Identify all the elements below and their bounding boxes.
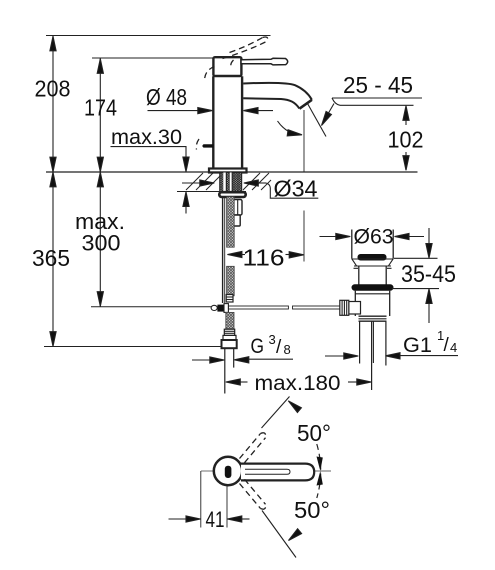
svg-text:Ø63: Ø63: [354, 225, 394, 249]
dim 25-45 underline: [332, 97, 422, 99]
dashed lever (raised position): [196, 37, 267, 149]
dim Ø34 arrows: [182, 182, 202, 184]
svg-text:116: 116: [243, 245, 285, 271]
tee junction: [211, 305, 217, 310]
deck hatching: [186, 173, 271, 190]
dim 102: [405, 108, 407, 125]
aerator swivel arc: [278, 121, 298, 135]
spout: [243, 83, 312, 100]
counter underside line: [177, 191, 246, 193]
mounting hardware stack: [233, 200, 242, 216]
plug cap: [358, 254, 387, 261]
svg-text:208: 208: [35, 76, 71, 102]
svg-text:max.180: max.180: [255, 372, 341, 395]
max.30 lower arrow: [185, 203, 187, 214]
rod to drain (right): [228, 306, 288, 309]
dim G3/8: [192, 359, 212, 361]
svg-text:G: G: [251, 335, 265, 358]
gray centerline: [201, 470, 214, 472]
dim max300 line: [99, 172, 101, 307]
dim 41: [200, 471, 202, 528]
body cylinder: [212, 76, 214, 168]
max300 bottom extension / pop-up rod line: [91, 306, 212, 308]
dim 208 line: [52, 36, 54, 172]
svg-text:25 - 45: 25 - 45: [343, 72, 413, 98]
braided hose lower: [226, 312, 234, 329]
Ø63 dim: [320, 236, 338, 238]
dashed swing arc: [317, 444, 321, 498]
svg-text:50°: 50°: [294, 497, 330, 523]
hose tube below nut: [224, 348, 226, 394]
dim 174 line: [99, 59, 101, 173]
connector bands: [224, 329, 234, 335]
dim 116: [240, 254, 246, 256]
drain top cylinder: [351, 230, 353, 259]
svg-text:G1: G1: [403, 333, 432, 357]
svg-text:174: 174: [84, 95, 117, 121]
extension line bottom of hose: [44, 346, 222, 348]
solid lever with paddle tip: [241, 58, 288, 65]
dim 365 line: [52, 172, 54, 347]
circle body top view: [214, 457, 242, 485]
svg-text:Ø 48: Ø 48: [146, 84, 187, 110]
svg-text:102: 102: [388, 127, 424, 153]
pill inside: [225, 466, 232, 478]
joint rings: [359, 315, 387, 317]
tailpipe: [359, 321, 361, 363]
braided hose upper: [227, 197, 235, 247]
svg-text:41: 41: [206, 507, 225, 532]
pop-up knob above tee: [226, 295, 233, 303]
deck reference line: [46, 171, 418, 173]
svg-text:/: /: [444, 335, 450, 356]
base flange: [209, 169, 247, 173]
svg-text:4: 4: [450, 340, 457, 355]
taper to neck: [352, 259, 393, 266]
arc bowtie arrows: [317, 457, 323, 472]
50 deg extension lines: [262, 397, 290, 429]
side knob: [349, 302, 361, 315]
extension line spout top level: [92, 57, 213, 59]
extension line top (lever tip level): [46, 35, 271, 37]
mounting washer under deck: [219, 192, 245, 197]
svg-text:300: 300: [82, 231, 121, 256]
lever top view: [241, 464, 314, 481]
G3/8 nut: [222, 340, 237, 348]
water stream diagonal: [308, 104, 327, 137]
neck: [358, 266, 360, 285]
max.30 underline leader: [111, 147, 187, 160]
body: [354, 291, 356, 316]
svg-text:35-45: 35-45: [401, 261, 456, 288]
dim 25-45 hook to extension line: [332, 98, 340, 105]
svg-text:/: /: [276, 337, 282, 358]
threaded shank: [220, 173, 242, 192]
handle cap block: [213, 57, 241, 76]
o-ring: [352, 284, 394, 290]
spout outlet projection line: [303, 110, 305, 172]
dim 35-45: [394, 257, 438, 259]
svg-text:50°: 50°: [297, 420, 331, 446]
dashed lever +50: [240, 433, 266, 509]
svg-text:max.30: max.30: [111, 126, 182, 149]
dim max.180: [240, 381, 248, 383]
svg-text:Ø34: Ø34: [274, 176, 318, 202]
extension line spout outlet level: [340, 104, 414, 106]
vertical pop-up rod pair: [222, 197, 224, 303]
svg-text:3: 3: [269, 332, 276, 347]
pop-up knob on body: [202, 144, 213, 147]
svg-text:8: 8: [284, 342, 291, 357]
svg-text:365: 365: [32, 245, 70, 271]
dim G1 1/4: [325, 355, 346, 357]
dim 25-45 leader arrow to stream: [325, 104, 334, 120]
